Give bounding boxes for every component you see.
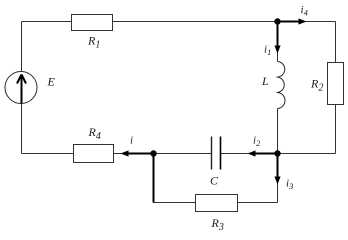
wire L to node [277, 109, 279, 154]
wire top-left horizontal [22, 21, 72, 23]
resistor R2 [328, 63, 344, 105]
resistor R4 [74, 145, 114, 163]
wire top-right horizontal [113, 21, 336, 23]
source E circle [5, 72, 37, 104]
wire node to capacitor [154, 153, 212, 155]
node junction top [274, 18, 280, 24]
node junction middle-left [150, 150, 156, 156]
svg-text:C: C [210, 174, 219, 188]
wire bottom right horizontal [238, 202, 278, 204]
wire center vertical above L [277, 22, 279, 62]
wire middle-left horizontal [22, 153, 74, 155]
wire node to right [278, 153, 336, 155]
inductor L [277, 62, 286, 109]
current arrow i3 [274, 154, 280, 185]
capacitor C right plate [220, 137, 222, 170]
wire capacitor to arrow i2 [221, 153, 250, 155]
resistor R3 [196, 195, 238, 212]
wire right vertical lower [335, 105, 337, 154]
resistor R1 [72, 15, 113, 31]
wire right vertical upper [335, 22, 337, 64]
wire bold left branch down [153, 154, 155, 203]
current arrow i2 [248, 150, 278, 156]
current arrow i1 [274, 22, 280, 54]
current arrow i (through R4) [121, 150, 154, 156]
svg-text:L: L [261, 74, 269, 88]
current arrow i4 [278, 18, 307, 24]
source E arrow [17, 75, 26, 104]
wire R4 to arrow tip [114, 153, 123, 155]
wire left vertical lower [21, 104, 23, 154]
capacitor C left plate [211, 137, 213, 170]
wire node down to bottom [277, 154, 279, 203]
node junction middle-right [274, 150, 280, 156]
svg-text:i: i [130, 135, 133, 147]
svg-text:E: E [47, 75, 56, 89]
wire bottom left horizontal [154, 202, 196, 204]
wire left vertical upper [21, 22, 23, 72]
